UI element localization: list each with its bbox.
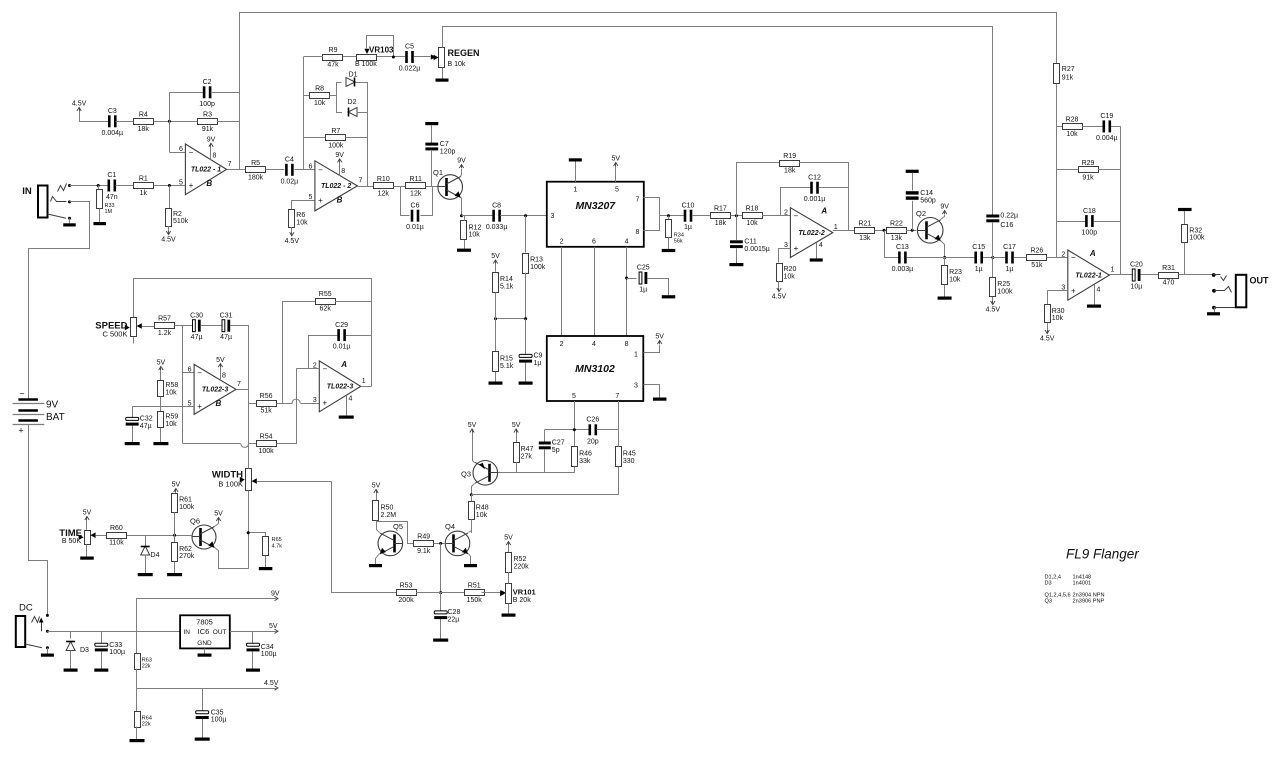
svg-text:B: B	[337, 195, 343, 204]
svg-text:D1,2,4: D1,2,4	[1045, 574, 1061, 580]
svg-text:9V: 9V	[271, 591, 280, 598]
svg-text:9V: 9V	[207, 136, 216, 143]
svg-text:R21: R21	[858, 220, 871, 227]
svg-text:100µ: 100µ	[261, 651, 277, 658]
svg-text:B 100K: B 100K	[218, 480, 243, 489]
svg-text:GND: GND	[197, 640, 212, 647]
svg-text:5V: 5V	[372, 483, 381, 490]
svg-text:R47: R47	[521, 446, 534, 453]
svg-text:+: +	[322, 399, 327, 408]
svg-text:C 500K: C 500K	[102, 330, 127, 339]
svg-text:510k: 510k	[173, 218, 189, 225]
svg-text:R52: R52	[514, 556, 527, 563]
svg-text:B: B	[206, 179, 212, 188]
svg-text:5V: 5V	[491, 253, 500, 260]
svg-text:10k: 10k	[784, 273, 796, 280]
svg-text:3: 3	[634, 383, 638, 390]
svg-text:4.5V: 4.5V	[986, 307, 1001, 314]
svg-text:47µ: 47µ	[140, 423, 152, 430]
svg-text:VR101: VR101	[513, 588, 536, 597]
svg-text:120p: 120p	[440, 149, 456, 156]
svg-text:10k: 10k	[949, 277, 961, 284]
svg-text:3: 3	[551, 213, 555, 220]
svg-text:C30: C30	[190, 312, 203, 319]
svg-text:7: 7	[615, 393, 619, 400]
svg-text:VR103: VR103	[369, 45, 394, 54]
svg-text:TL022-3: TL022-3	[202, 387, 229, 394]
svg-text:100µ: 100µ	[109, 649, 125, 656]
svg-text:1µ: 1µ	[534, 360, 542, 367]
svg-text:R34: R34	[674, 233, 684, 239]
svg-text:5V: 5V	[468, 422, 477, 429]
svg-text:1µ: 1µ	[684, 224, 692, 231]
svg-text:4.5V: 4.5V	[772, 294, 787, 301]
svg-text:−: −	[318, 165, 323, 174]
svg-text:Q2: Q2	[916, 209, 926, 218]
svg-text:R19: R19	[783, 153, 796, 160]
svg-text:5V: 5V	[83, 510, 92, 517]
svg-text:5.1k: 5.1k	[500, 363, 514, 370]
svg-text:C4: C4	[285, 157, 294, 164]
svg-text:Q1: Q1	[433, 168, 443, 177]
svg-text:5V: 5V	[655, 334, 664, 341]
svg-text:C3: C3	[108, 108, 117, 115]
svg-text:1: 1	[573, 187, 577, 194]
svg-text:10k: 10k	[165, 390, 177, 397]
svg-text:R27: R27	[1062, 66, 1075, 73]
svg-text:12k: 12k	[378, 191, 390, 198]
svg-text:D3: D3	[1045, 581, 1052, 587]
svg-text:R17: R17	[714, 206, 727, 213]
svg-text:8: 8	[341, 168, 345, 175]
svg-text:+: +	[318, 196, 323, 205]
svg-text:9V: 9V	[335, 152, 344, 159]
svg-text:C31: C31	[220, 312, 233, 319]
svg-text:6: 6	[308, 164, 312, 171]
svg-text:9V: 9V	[457, 158, 466, 165]
svg-text:R8: R8	[315, 86, 324, 93]
svg-text:R30: R30	[1052, 308, 1065, 315]
svg-text:−: −	[322, 364, 327, 373]
svg-text:20p: 20p	[587, 438, 599, 445]
svg-text:150k: 150k	[467, 597, 483, 604]
svg-text:C32: C32	[140, 416, 153, 423]
svg-text:18k: 18k	[715, 220, 727, 227]
svg-text:10µ: 10µ	[1130, 284, 1142, 291]
svg-text:6: 6	[188, 367, 192, 374]
svg-text:100k: 100k	[259, 448, 275, 455]
svg-text:Q3: Q3	[461, 470, 471, 479]
svg-text:1: 1	[634, 351, 638, 358]
svg-text:TL022 - 1: TL022 - 1	[191, 167, 221, 174]
svg-text:2: 2	[784, 210, 788, 217]
svg-text:91k: 91k	[1062, 75, 1074, 82]
svg-text:47µ: 47µ	[220, 334, 232, 341]
svg-text:D4: D4	[151, 552, 160, 559]
svg-text:0.02µ: 0.02µ	[281, 178, 299, 185]
svg-text:R25: R25	[997, 281, 1010, 288]
svg-text:0.004µ: 0.004µ	[1096, 135, 1118, 142]
svg-text:0.01µ: 0.01µ	[333, 344, 351, 351]
svg-text:C5: C5	[405, 44, 414, 51]
svg-text:5V: 5V	[157, 360, 166, 367]
svg-text:4: 4	[349, 396, 353, 403]
svg-text:6: 6	[179, 146, 183, 153]
svg-text:C26: C26	[586, 417, 599, 424]
svg-text:C7: C7	[440, 141, 449, 148]
svg-text:1: 1	[362, 378, 366, 385]
svg-text:1µ: 1µ	[975, 266, 983, 273]
svg-text:5V: 5V	[512, 422, 521, 429]
svg-text:4: 4	[592, 341, 596, 348]
svg-text:R59: R59	[165, 414, 178, 421]
svg-text:C34: C34	[261, 644, 274, 651]
svg-text:B: B	[216, 399, 222, 408]
svg-text:R57: R57	[158, 316, 171, 323]
svg-text:+: +	[189, 181, 194, 190]
svg-text:560p: 560p	[920, 197, 936, 204]
svg-text:5V: 5V	[214, 511, 223, 518]
svg-text:R56: R56	[260, 393, 273, 400]
svg-text:6: 6	[592, 239, 596, 246]
svg-text:IN: IN	[184, 629, 191, 636]
svg-text:5V: 5V	[504, 535, 513, 542]
svg-text:4.5V: 4.5V	[264, 680, 279, 687]
svg-text:0.001µ: 0.001µ	[804, 196, 826, 203]
svg-text:R15: R15	[500, 356, 513, 363]
svg-text:0.033µ: 0.033µ	[486, 224, 508, 231]
svg-text:B 50K: B 50K	[62, 538, 81, 545]
svg-text:R61: R61	[179, 497, 192, 504]
svg-text:2.2M: 2.2M	[381, 512, 397, 519]
svg-text:C11: C11	[744, 238, 756, 245]
svg-text:C14: C14	[920, 190, 933, 197]
svg-text:7: 7	[636, 196, 640, 203]
svg-text:1.2k: 1.2k	[158, 330, 172, 337]
svg-text:R18: R18	[746, 206, 759, 213]
svg-text:8: 8	[636, 229, 640, 236]
svg-text:4: 4	[625, 239, 629, 246]
svg-text:2: 2	[1061, 251, 1065, 258]
svg-text:C17: C17	[1003, 244, 1016, 251]
svg-text:R13: R13	[530, 257, 543, 264]
svg-text:9.1k: 9.1k	[417, 548, 431, 555]
svg-text:22k: 22k	[142, 722, 151, 728]
svg-text:C33: C33	[109, 642, 122, 649]
svg-text:C16: C16	[1000, 222, 1013, 229]
svg-text:R65: R65	[272, 537, 282, 543]
svg-text:−: −	[794, 211, 799, 220]
svg-text:R9: R9	[329, 47, 338, 54]
svg-text:−: −	[189, 148, 194, 157]
svg-text:B 20k: B 20k	[513, 597, 531, 604]
svg-text:C12: C12	[808, 174, 821, 181]
svg-text:R28: R28	[1066, 116, 1079, 123]
svg-text:18k: 18k	[138, 126, 150, 133]
svg-text:TL022-2: TL022-2	[798, 230, 825, 237]
svg-text:27k: 27k	[521, 453, 533, 460]
svg-text:TIME: TIME	[59, 528, 82, 539]
svg-text:C20: C20	[1130, 262, 1143, 269]
svg-text:R46: R46	[579, 451, 592, 458]
svg-text:C27: C27	[552, 440, 565, 447]
svg-text:5p: 5p	[552, 447, 560, 454]
svg-text:D3: D3	[80, 647, 89, 654]
svg-text:1µ: 1µ	[1006, 266, 1014, 273]
svg-text:1k: 1k	[140, 190, 148, 197]
svg-text:1: 1	[1110, 267, 1114, 274]
svg-text:2n3904 NPN: 2n3904 NPN	[1073, 592, 1105, 598]
svg-text:R20: R20	[784, 266, 797, 273]
svg-text:R48: R48	[476, 505, 489, 512]
svg-text:1n4001: 1n4001	[1073, 581, 1092, 587]
svg-text:Q1,2,4,5,6: Q1,2,4,5,6	[1045, 592, 1071, 598]
svg-text:R32: R32	[1189, 227, 1202, 234]
svg-text:12k: 12k	[410, 191, 422, 198]
svg-text:R3: R3	[203, 111, 212, 118]
svg-text:R49: R49	[417, 533, 430, 540]
svg-text:C19: C19	[1100, 113, 1113, 120]
svg-text:91k: 91k	[1082, 174, 1094, 181]
svg-text:62k: 62k	[320, 306, 332, 313]
svg-text:10k: 10k	[314, 100, 326, 107]
svg-text:0.022µ: 0.022µ	[399, 66, 421, 73]
svg-text:10k: 10k	[165, 421, 177, 428]
svg-text:Q4: Q4	[445, 522, 455, 531]
svg-text:R50: R50	[381, 505, 394, 512]
svg-text:100p: 100p	[199, 101, 215, 108]
svg-text:MN3207: MN3207	[575, 200, 616, 212]
svg-text:100p: 100p	[1082, 230, 1098, 237]
svg-text:R45: R45	[623, 451, 636, 458]
svg-text:C8: C8	[492, 202, 501, 209]
svg-text:R7: R7	[331, 128, 340, 135]
svg-text:47n: 47n	[106, 194, 118, 201]
svg-text:OUT: OUT	[213, 629, 227, 636]
svg-text:3: 3	[313, 397, 317, 404]
svg-text:22k: 22k	[142, 664, 151, 670]
svg-text:13k: 13k	[891, 235, 903, 242]
svg-text:56k: 56k	[674, 239, 683, 245]
svg-text:C28: C28	[448, 609, 461, 616]
svg-text:270k: 270k	[179, 553, 195, 560]
svg-text:5V: 5V	[612, 156, 621, 163]
svg-text:OUT: OUT	[1250, 276, 1270, 286]
svg-text:C18: C18	[1083, 208, 1096, 215]
svg-text:10k: 10k	[1052, 315, 1064, 322]
svg-text:100µ: 100µ	[211, 716, 227, 723]
svg-text:100k: 100k	[1189, 235, 1205, 242]
svg-text:B 10k: B 10k	[448, 61, 466, 68]
svg-text:R23: R23	[949, 269, 962, 276]
svg-text:REGEN: REGEN	[448, 48, 480, 58]
svg-text:8: 8	[625, 341, 629, 348]
svg-text:51k: 51k	[1031, 262, 1043, 269]
svg-text:9V: 9V	[940, 204, 949, 211]
svg-text:100k: 100k	[328, 142, 344, 149]
svg-text:4.5V: 4.5V	[72, 101, 87, 108]
svg-text:8: 8	[213, 152, 217, 159]
svg-text:D1: D1	[349, 72, 358, 79]
svg-text:R53: R53	[400, 583, 413, 590]
svg-text:13k: 13k	[859, 235, 871, 242]
svg-text:C10: C10	[682, 202, 695, 209]
svg-text:4.5V: 4.5V	[161, 237, 176, 244]
svg-text:R54: R54	[260, 433, 273, 440]
svg-text:BAT: BAT	[46, 412, 65, 423]
svg-text:1µ: 1µ	[639, 287, 647, 294]
svg-text:TL022-3: TL022-3	[327, 384, 354, 391]
svg-text:10k: 10k	[296, 220, 308, 227]
svg-text:TL022 - 2: TL022 - 2	[321, 183, 351, 190]
svg-text:18k: 18k	[784, 168, 796, 175]
svg-text:C25: C25	[637, 265, 650, 272]
svg-text:Q3: Q3	[1045, 599, 1052, 605]
svg-text:C6: C6	[411, 202, 420, 209]
svg-text:R22: R22	[890, 220, 903, 227]
svg-text:8: 8	[222, 373, 226, 380]
svg-text:7: 7	[237, 381, 241, 388]
svg-text:0.01µ: 0.01µ	[406, 224, 424, 231]
svg-text:1n4148: 1n4148	[1073, 574, 1092, 580]
svg-text:33k: 33k	[579, 458, 591, 465]
svg-text:C2: C2	[203, 79, 212, 86]
svg-text:100k: 100k	[530, 264, 546, 271]
svg-text:R62: R62	[179, 546, 192, 553]
svg-text:R11: R11	[410, 176, 422, 183]
svg-text:10k: 10k	[476, 512, 488, 519]
svg-text:R51: R51	[468, 583, 481, 590]
svg-text:−: −	[19, 389, 24, 399]
svg-text:C13: C13	[896, 244, 909, 251]
svg-text:10k: 10k	[469, 232, 481, 239]
svg-text:0.004µ: 0.004µ	[102, 130, 124, 137]
svg-text:R14: R14	[500, 276, 513, 283]
svg-text:C1: C1	[107, 172, 116, 179]
svg-text:A: A	[820, 207, 827, 216]
svg-text:C15: C15	[972, 244, 985, 251]
svg-text:D2: D2	[348, 99, 357, 106]
svg-text:2: 2	[560, 239, 564, 246]
svg-text:R1: R1	[139, 176, 148, 183]
svg-text:5V: 5V	[216, 357, 225, 364]
svg-text:4.5V: 4.5V	[285, 238, 300, 245]
svg-text:4: 4	[1097, 287, 1101, 294]
svg-text:+: +	[1071, 286, 1076, 295]
svg-text:B 100k: B 100k	[355, 61, 377, 68]
svg-text:R12: R12	[469, 224, 482, 231]
svg-text:−: −	[1071, 253, 1076, 262]
svg-text:4: 4	[819, 242, 823, 249]
svg-text:100k: 100k	[179, 504, 195, 511]
svg-text:5.1k: 5.1k	[500, 284, 514, 291]
svg-text:330: 330	[623, 458, 635, 465]
svg-text:100k: 100k	[997, 289, 1013, 296]
svg-text:5: 5	[179, 179, 183, 186]
svg-text:IN: IN	[22, 186, 32, 197]
svg-text:7: 7	[228, 161, 232, 168]
svg-text:C29: C29	[335, 322, 348, 329]
svg-text:R33: R33	[105, 203, 115, 209]
svg-text:MN3102: MN3102	[575, 363, 615, 375]
svg-text:2: 2	[560, 341, 564, 348]
svg-text:R55: R55	[319, 291, 332, 298]
svg-text:10k: 10k	[746, 220, 758, 227]
svg-text:R31: R31	[1162, 265, 1175, 272]
svg-text:47k: 47k	[327, 62, 339, 69]
svg-text:1M: 1M	[105, 209, 113, 215]
svg-text:R2: R2	[173, 211, 182, 218]
svg-text:R58: R58	[165, 382, 178, 389]
svg-text:47µ: 47µ	[191, 334, 203, 341]
svg-text:180k: 180k	[248, 174, 264, 181]
svg-text:R26: R26	[1030, 248, 1043, 255]
svg-text:R10: R10	[377, 176, 390, 183]
svg-text:10k: 10k	[1066, 131, 1078, 138]
svg-text:22µ: 22µ	[448, 617, 460, 624]
svg-text:R29: R29	[1082, 160, 1095, 167]
svg-text:A: A	[340, 360, 347, 369]
svg-text:C9: C9	[534, 353, 543, 360]
svg-text:51k: 51k	[260, 408, 272, 415]
svg-text:FL9 Flanger: FL9 Flanger	[1066, 547, 1139, 562]
svg-text:+: +	[794, 244, 799, 253]
svg-text:2n3906 PNP: 2n3906 PNP	[1073, 599, 1105, 605]
svg-text:110k: 110k	[109, 540, 124, 547]
svg-text:5: 5	[572, 393, 576, 400]
svg-text:7805: 7805	[196, 618, 213, 627]
svg-text:C35: C35	[211, 709, 224, 716]
svg-text:+: +	[18, 426, 23, 436]
svg-text:Q5: Q5	[393, 522, 403, 531]
svg-text:5V: 5V	[172, 482, 181, 489]
svg-text:+: +	[197, 402, 202, 411]
svg-text:A: A	[1089, 249, 1096, 258]
svg-text:R60: R60	[110, 525, 123, 532]
svg-text:5V: 5V	[269, 623, 278, 630]
svg-text:TL022-1: TL022-1	[1075, 272, 1102, 279]
svg-text:470: 470	[1163, 280, 1175, 287]
svg-text:91k: 91k	[202, 126, 214, 133]
svg-text:0.22µ: 0.22µ	[1000, 213, 1018, 220]
svg-text:0.003µ: 0.003µ	[892, 266, 914, 273]
svg-text:0.0015µ: 0.0015µ	[744, 246, 769, 253]
svg-text:IC6: IC6	[198, 627, 210, 636]
svg-text:9V: 9V	[46, 400, 59, 411]
svg-text:R4: R4	[139, 111, 148, 118]
svg-text:−: −	[197, 368, 202, 377]
svg-text:5: 5	[615, 187, 619, 194]
svg-text:4.5V: 4.5V	[1040, 336, 1055, 343]
svg-text:4.7k: 4.7k	[272, 544, 283, 550]
svg-text:220k: 220k	[514, 564, 530, 571]
svg-text:200k: 200k	[398, 597, 414, 604]
svg-text:7: 7	[358, 177, 362, 184]
svg-text:R6: R6	[296, 212, 305, 219]
svg-text:Q6: Q6	[190, 517, 200, 526]
svg-text:R5: R5	[251, 160, 260, 167]
svg-text:DC: DC	[19, 603, 33, 614]
